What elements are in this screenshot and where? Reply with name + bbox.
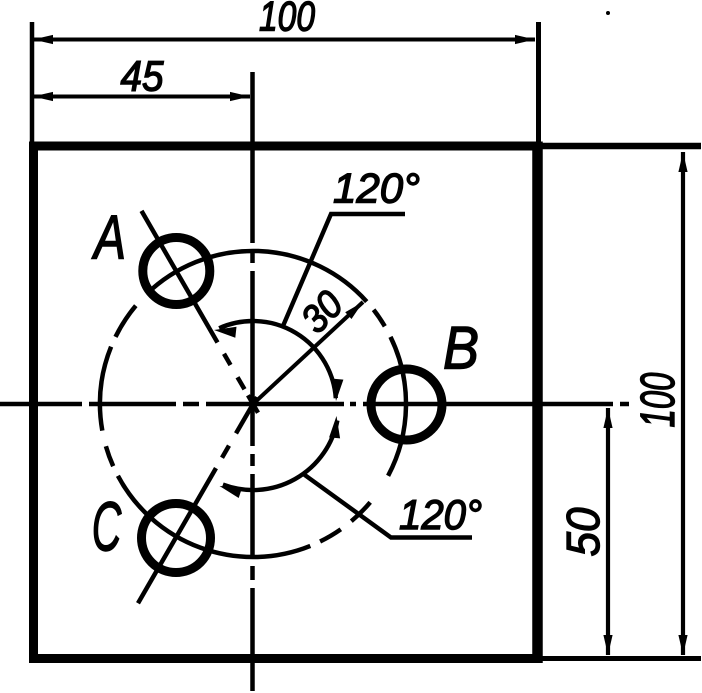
svg-text:50: 50: [557, 507, 609, 556]
svg-text:A: A: [91, 204, 126, 273]
svg-text:100: 100: [632, 372, 685, 427]
svg-text:100: 100: [259, 0, 316, 40]
svg-text:B: B: [443, 315, 479, 382]
svg-text:120°: 120°: [333, 165, 420, 212]
svg-text:45: 45: [121, 53, 165, 101]
svg-text:C: C: [92, 488, 122, 566]
svg-text:120°: 120°: [399, 491, 482, 538]
